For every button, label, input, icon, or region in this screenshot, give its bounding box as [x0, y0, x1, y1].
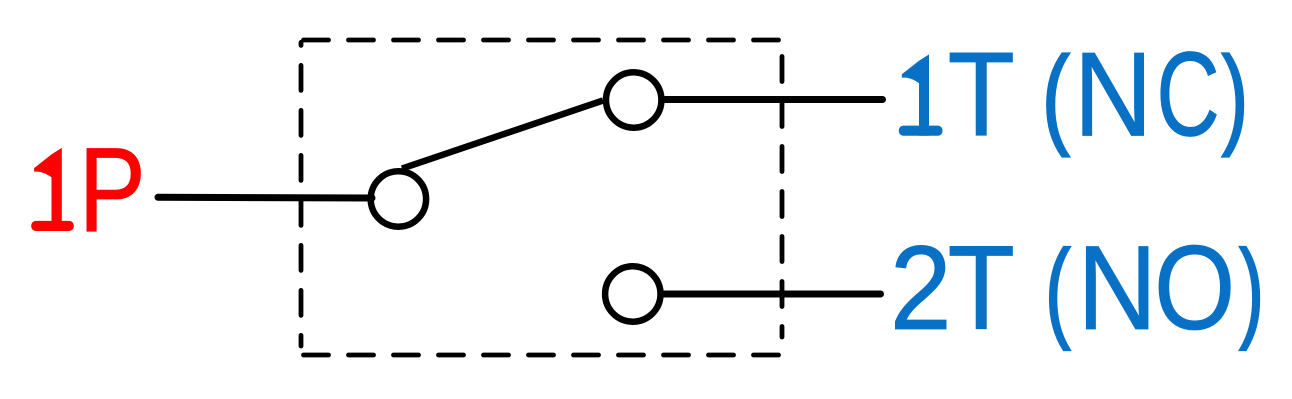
enclosure left edge: [299, 42, 304, 346]
pole label 1P: [31, 123, 146, 257]
svg-text:2: 2: [890, 221, 952, 355]
svg-text:N: N: [1077, 221, 1157, 355]
wire: pole lead from 1P to pole terminal: [158, 194, 372, 202]
svg-text:P: P: [79, 123, 146, 257]
svg-text:N: N: [1074, 28, 1153, 162]
switch lever (pole to NC throw): [402, 101, 603, 169]
NC terminal circle: [606, 72, 661, 127]
wire: NO terminal lead: [663, 291, 881, 298]
pole terminal circle (common): [371, 171, 426, 226]
enclosure right edge: [780, 42, 785, 337]
svg-text:T: T: [948, 28, 1016, 162]
svg-text:C: C: [1156, 28, 1220, 162]
svg-text:(: (: [1042, 35, 1070, 158]
enclosure: dashed switch body outline: [301, 40, 782, 355]
NO terminal circle: [605, 266, 660, 321]
svg-text:T: T: [948, 221, 1016, 355]
svg-text:): ): [1239, 228, 1264, 351]
svg-text:(: (: [1045, 228, 1071, 351]
wire: NC terminal lead: [664, 96, 883, 103]
enclosure top edge: [304, 38, 783, 43]
NO label 2T (NO): [890, 221, 1264, 355]
NC label 1T (NC): [899, 28, 1249, 162]
svg-text:): ): [1222, 35, 1249, 158]
svg-text:O: O: [1154, 221, 1235, 355]
enclosure bottom edge: [304, 353, 783, 358]
